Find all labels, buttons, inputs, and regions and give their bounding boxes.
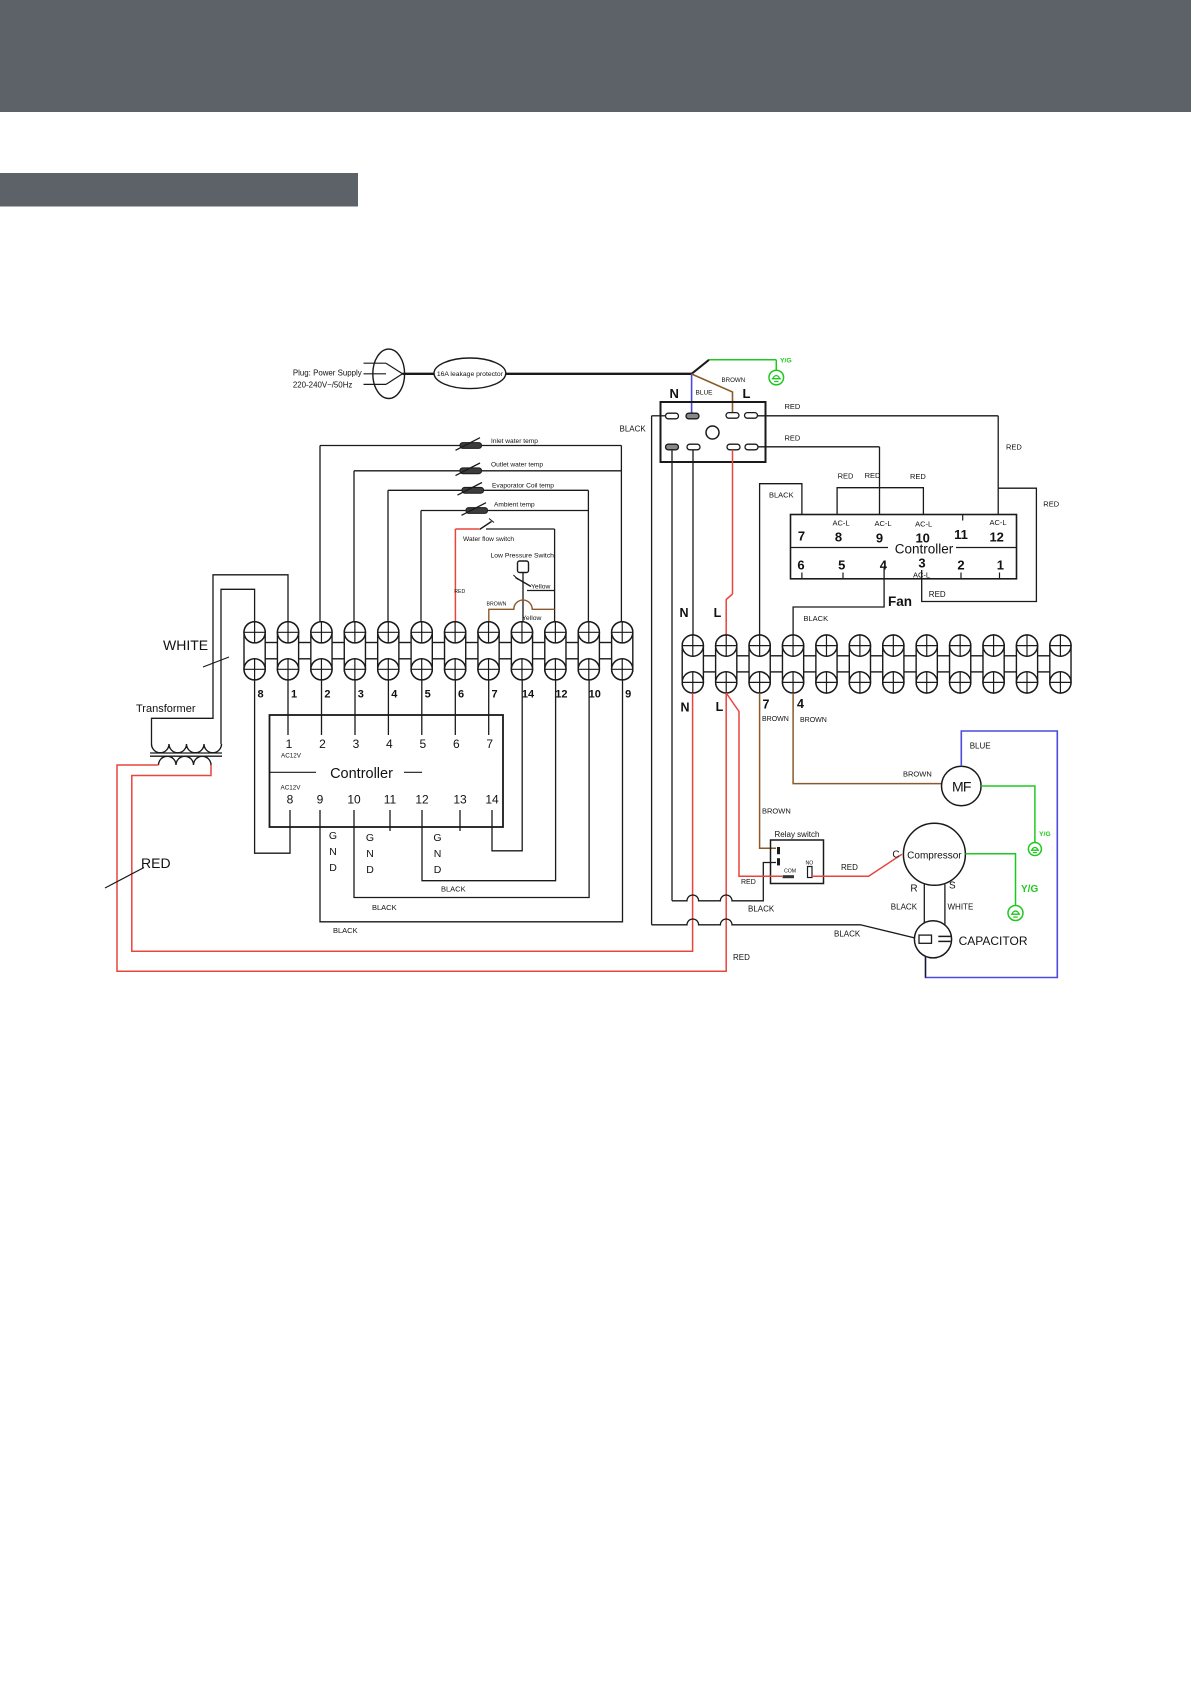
- svg-text:Relay switch: Relay switch: [775, 830, 820, 839]
- svg-text:N: N: [680, 701, 689, 715]
- svg-text:BLUE: BLUE: [696, 390, 714, 397]
- svg-text:7: 7: [486, 737, 493, 751]
- svg-text:N: N: [329, 846, 337, 858]
- svg-text:3: 3: [918, 556, 925, 571]
- svg-text:220-240V~/50Hz: 220-240V~/50Hz: [293, 381, 352, 390]
- svg-text:Plug: Power Supply: Plug: Power Supply: [293, 369, 362, 378]
- svg-text:Ambient temp: Ambient temp: [494, 502, 535, 509]
- svg-text:6: 6: [797, 558, 804, 573]
- svg-text:12: 12: [989, 530, 1003, 545]
- svg-text:9: 9: [625, 689, 631, 701]
- svg-text:BLACK: BLACK: [333, 926, 358, 935]
- svg-text:9: 9: [317, 793, 324, 807]
- svg-text:1: 1: [997, 558, 1004, 573]
- svg-text:RED: RED: [929, 590, 946, 599]
- svg-text:L: L: [743, 386, 751, 401]
- svg-text:CAPACITOR: CAPACITOR: [959, 934, 1028, 948]
- svg-text:D: D: [434, 864, 442, 876]
- svg-text:4: 4: [391, 689, 398, 701]
- svg-text:5: 5: [838, 558, 845, 573]
- svg-text:RED: RED: [865, 471, 881, 480]
- svg-text:BROWN: BROWN: [762, 807, 791, 816]
- svg-text:Transformer: Transformer: [136, 703, 196, 715]
- svg-text:Compressor: Compressor: [907, 851, 962, 862]
- svg-text:6: 6: [453, 737, 460, 751]
- svg-text:2: 2: [324, 689, 330, 701]
- svg-text:N: N: [670, 386, 679, 401]
- svg-text:RED: RED: [785, 402, 801, 411]
- svg-text:6: 6: [458, 689, 464, 701]
- svg-text:WHITE: WHITE: [163, 637, 208, 653]
- svg-text:RED: RED: [838, 472, 854, 481]
- svg-text:D: D: [329, 862, 337, 874]
- svg-text:13: 13: [453, 793, 467, 807]
- svg-text:L: L: [714, 606, 722, 620]
- svg-text:Controller: Controller: [330, 766, 393, 782]
- svg-text:C: C: [892, 850, 899, 861]
- svg-text:G: G: [329, 830, 337, 842]
- svg-text:3: 3: [358, 689, 364, 701]
- svg-text:RED: RED: [785, 434, 801, 443]
- svg-text:COM: COM: [784, 869, 796, 875]
- svg-text:NO: NO: [806, 861, 814, 867]
- svg-text:Evaporator Coil temp: Evaporator Coil temp: [492, 483, 554, 490]
- svg-text:AC12V: AC12V: [281, 785, 302, 792]
- svg-text:7: 7: [798, 529, 805, 544]
- svg-text:2: 2: [957, 558, 964, 573]
- svg-text:12: 12: [555, 689, 567, 701]
- svg-text:12: 12: [415, 793, 429, 807]
- svg-text:MF: MF: [952, 779, 971, 795]
- svg-text:D: D: [366, 864, 374, 876]
- svg-text:3: 3: [353, 737, 360, 751]
- svg-text:7: 7: [491, 689, 497, 701]
- svg-text:WHITE: WHITE: [948, 903, 974, 912]
- svg-text:BLUE: BLUE: [970, 742, 991, 751]
- svg-text:8: 8: [258, 689, 264, 701]
- svg-text:RED: RED: [1043, 500, 1059, 509]
- svg-text:AC-L: AC-L: [915, 520, 932, 529]
- svg-text:BROWN: BROWN: [487, 602, 507, 608]
- svg-text:8: 8: [287, 793, 294, 807]
- svg-text:S: S: [949, 881, 956, 892]
- svg-text:RED: RED: [141, 855, 171, 871]
- svg-text:1: 1: [286, 737, 293, 751]
- svg-text:RED: RED: [733, 953, 750, 962]
- svg-text:11: 11: [954, 527, 968, 542]
- svg-text:BLACK: BLACK: [834, 930, 861, 939]
- svg-text:N: N: [434, 848, 442, 860]
- svg-text:AC-L: AC-L: [989, 518, 1006, 527]
- svg-text:BLACK: BLACK: [372, 903, 397, 912]
- svg-text:4: 4: [797, 697, 804, 711]
- svg-text:BLACK: BLACK: [441, 885, 466, 894]
- svg-text:10: 10: [347, 793, 361, 807]
- svg-text:Outlet water temp: Outlet water temp: [491, 462, 543, 469]
- svg-text:G: G: [433, 832, 441, 844]
- svg-text:RED: RED: [1006, 443, 1022, 452]
- svg-text:BLACK: BLACK: [748, 905, 775, 914]
- svg-text:Y/G: Y/G: [1021, 884, 1038, 895]
- svg-text:AC-L: AC-L: [874, 519, 891, 528]
- svg-text:Y/G: Y/G: [780, 358, 792, 365]
- svg-text:BLACK: BLACK: [891, 903, 918, 912]
- svg-text:14: 14: [485, 793, 499, 807]
- svg-text:Inlet water temp: Inlet water temp: [491, 438, 538, 445]
- svg-text:5: 5: [425, 689, 431, 701]
- svg-text:BROWN: BROWN: [722, 377, 746, 384]
- svg-text:N: N: [366, 848, 374, 860]
- svg-text:BROWN: BROWN: [800, 717, 827, 724]
- svg-text:14: 14: [522, 689, 535, 701]
- svg-text:BROWN: BROWN: [903, 770, 932, 779]
- svg-text:L: L: [716, 700, 724, 714]
- svg-text:5: 5: [419, 737, 426, 751]
- svg-text:4: 4: [386, 737, 393, 751]
- svg-text:G: G: [366, 832, 374, 844]
- svg-text:Low Pressure Switch: Low Pressure Switch: [491, 553, 555, 560]
- svg-text:Yellow: Yellow: [531, 584, 550, 591]
- svg-text:BLACK: BLACK: [620, 425, 647, 434]
- svg-text:AC-L: AC-L: [832, 519, 849, 528]
- svg-text:RED: RED: [841, 863, 858, 872]
- svg-text:Y/G: Y/G: [1039, 831, 1051, 838]
- svg-text:N: N: [679, 606, 688, 620]
- svg-text:RED: RED: [741, 879, 756, 886]
- svg-text:Yellow: Yellow: [522, 615, 541, 622]
- svg-text:2: 2: [319, 737, 326, 751]
- svg-text:16A leakage protector: 16A leakage protector: [437, 371, 504, 378]
- svg-text:Water flow switch: Water flow switch: [463, 536, 514, 543]
- svg-text:BLACK: BLACK: [769, 491, 794, 500]
- svg-text:9: 9: [876, 531, 883, 546]
- svg-text:11: 11: [384, 793, 397, 807]
- svg-text:10: 10: [589, 689, 601, 701]
- svg-text:10: 10: [915, 531, 929, 546]
- svg-text:1: 1: [291, 689, 297, 701]
- svg-text:7: 7: [763, 698, 770, 712]
- svg-text:R: R: [910, 884, 917, 895]
- svg-text:BROWN: BROWN: [762, 716, 789, 723]
- svg-text:RED: RED: [910, 472, 926, 481]
- svg-text:RED: RED: [454, 589, 465, 595]
- svg-text:8: 8: [835, 530, 842, 545]
- svg-text:BLACK: BLACK: [804, 614, 829, 623]
- svg-text:AC12V: AC12V: [281, 753, 302, 760]
- svg-text:Fan: Fan: [888, 594, 912, 609]
